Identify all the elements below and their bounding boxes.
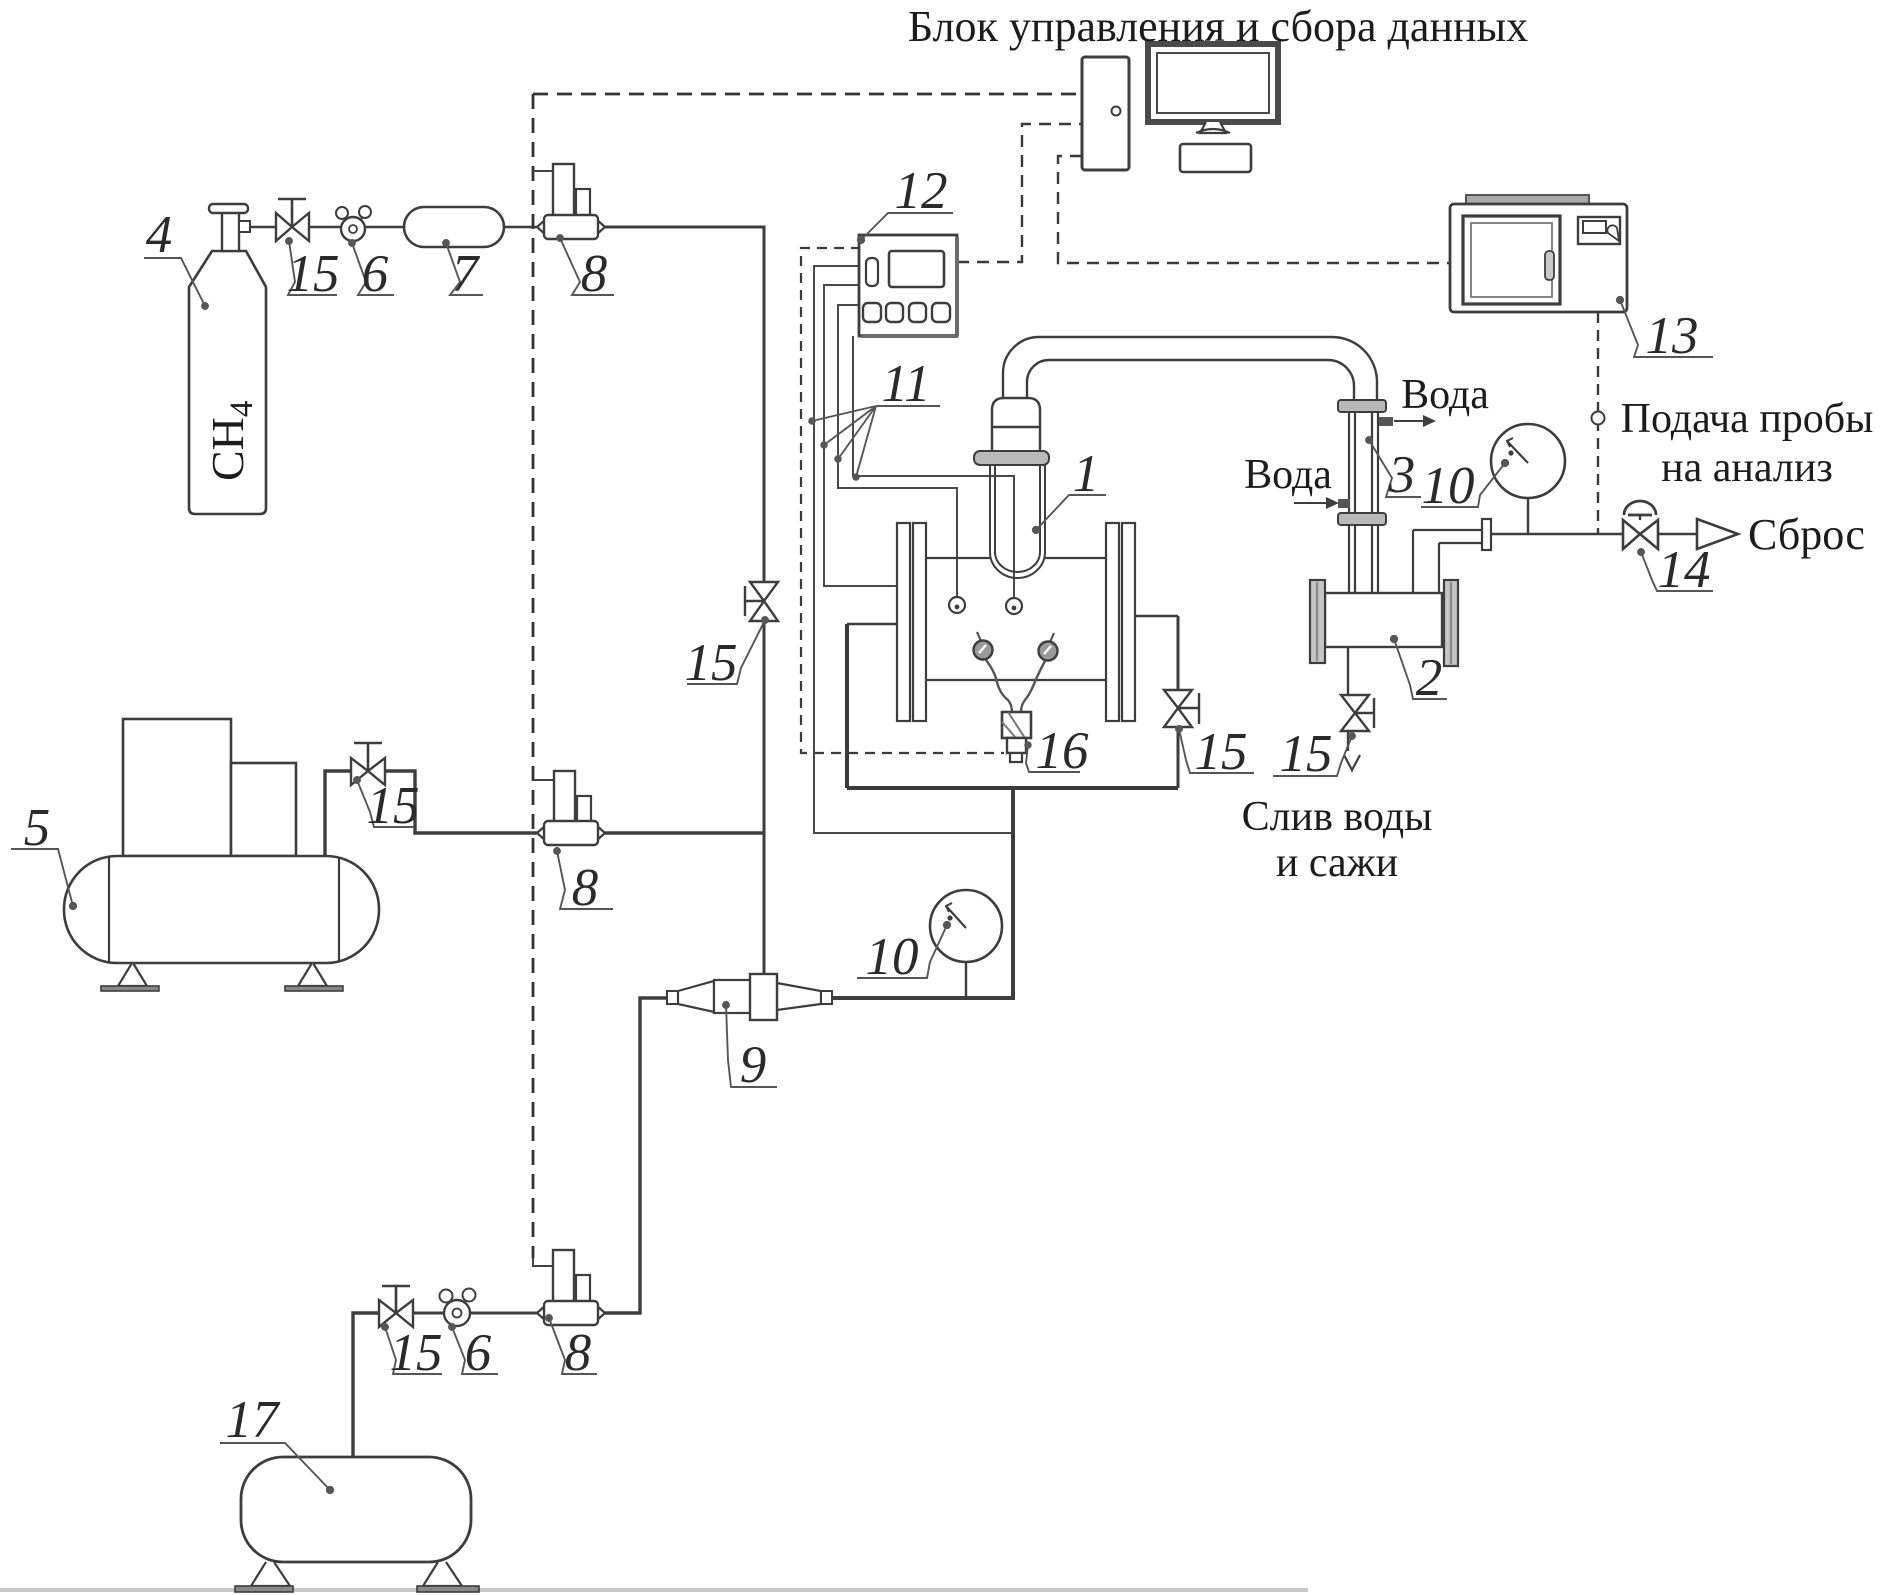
- svg-text:8: 8: [565, 1324, 592, 1382]
- reactor flange column left pair: [897, 523, 910, 721]
- svg-text:15: 15: [287, 245, 340, 303]
- gas nozzle port right: [1006, 598, 1022, 614]
- separator right flange: [1444, 580, 1458, 666]
- leader label 15 separator drain: [1273, 736, 1352, 776]
- svg-text:Сброс: Сброс: [1748, 510, 1865, 559]
- svg-text:13: 13: [1646, 307, 1699, 365]
- pipe drier 7 to flow controller 8: [504, 226, 538, 229]
- vertical line valve 15: [750, 582, 778, 601]
- svg-text:5: 5: [24, 799, 51, 857]
- receiver left leg: [251, 1562, 290, 1586]
- pressure gauge 10 bottom: [930, 890, 1002, 962]
- pipe valve 15 to regulator 6: [309, 226, 343, 229]
- page edge artifact bottom: [0, 1588, 1308, 1592]
- outlet bend pipe outer wall reactor to heat exchanger: [1003, 337, 1377, 401]
- svg-text:Блок управления и сбора данных: Блок управления и сбора данных: [908, 2, 1528, 51]
- CH4 cylinder handwheel: [209, 204, 248, 213]
- receiver tank 17: [241, 1457, 471, 1562]
- wire connector trunk bottom to flow controller 8 bottom: [533, 1258, 553, 1266]
- flow controller 8 bottom: [537, 1305, 546, 1321]
- svg-text:9: 9: [740, 1036, 767, 1094]
- heat exchanger top flange: [1338, 400, 1386, 412]
- svg-text:и сажи: и сажи: [1276, 840, 1398, 886]
- monitor stand: [1200, 122, 1226, 133]
- leader label 15 vertical valve: [687, 620, 765, 684]
- jacket drain valve 15: [1164, 690, 1192, 708]
- svg-text:6: 6: [362, 245, 389, 303]
- dashed line controller 12 to igniter 16: [801, 248, 1004, 753]
- compressor right leg: [298, 963, 327, 986]
- controller 12 display: [889, 251, 944, 287]
- pipe regulator 6 to drier vessel 7: [364, 226, 404, 229]
- svg-text:16: 16: [1036, 722, 1090, 780]
- thermocouple wire 11a from controller 12 to feed pipe: [814, 266, 1012, 833]
- pipe compressor 5 up to valve 15: [325, 771, 351, 856]
- leader label 16: [1026, 745, 1080, 772]
- dashed control trunk line from control unit down left side: [532, 94, 535, 1258]
- leader label 9: [726, 1005, 777, 1087]
- svg-text:3: 3: [1388, 446, 1416, 504]
- svg-text:Вода: Вода: [1244, 452, 1332, 498]
- svg-text:15: 15: [367, 777, 420, 835]
- reactor drain line right with gap for valve 15: [1177, 616, 1180, 788]
- heat exchanger 3 tube walls upper section: [1349, 412, 1378, 513]
- ignition wire right: [1021, 661, 1045, 712]
- separator left flange: [1310, 580, 1325, 663]
- outlet pipe union fitting: [1482, 519, 1491, 550]
- pipe flow controller 8 output to main vertical CH4 line: [604, 227, 764, 582]
- leader label 10 right: [1421, 463, 1505, 507]
- compressor 5 receiver tank: [64, 856, 379, 963]
- leader label 12: [861, 213, 953, 240]
- svg-text:Вода: Вода: [1401, 372, 1489, 418]
- discharge flare arrow: [1697, 519, 1738, 549]
- svg-text:10: 10: [1422, 457, 1475, 515]
- CH4 cylinder 4 body: [189, 251, 266, 514]
- svg-text:1: 1: [1073, 445, 1100, 503]
- pipe valve 15 to middle flow controller 8: [385, 771, 537, 833]
- leader label 15 cylinder valve: [288, 241, 337, 295]
- svg-text:4: 4: [146, 206, 173, 264]
- flow controller 8 top: [537, 219, 546, 235]
- receiver right leg: [423, 1562, 462, 1586]
- outlet bend pipe inner wall: [1027, 360, 1354, 401]
- burner bell dome: [992, 398, 1040, 451]
- compressor left leg: [118, 963, 147, 986]
- sampling line orifice symbol: [1592, 412, 1605, 425]
- compressor 5 motor box large: [123, 719, 231, 856]
- wire connector trunk to flow controller 8 middle: [533, 779, 554, 781]
- pipe middle flow controller 8 to main vertical line: [605, 831, 764, 834]
- svg-text:15: 15: [390, 1324, 443, 1382]
- reactor jacket left and bottom wall: [847, 624, 1178, 788]
- ejector 9 center block: [750, 974, 777, 1020]
- svg-text:10: 10: [866, 928, 919, 986]
- water inlet stub: [1338, 499, 1350, 508]
- reactor jacket top right connector: [1135, 615, 1178, 617]
- svg-text:на анализ: на анализ: [1661, 445, 1833, 491]
- bottom regulator 6: [440, 1290, 453, 1303]
- reactor vessel top line: [926, 557, 1106, 559]
- svg-text:2: 2: [1416, 649, 1443, 707]
- pressure gauge 10 right: [1491, 424, 1565, 498]
- gas nozzle port left: [949, 597, 965, 613]
- pressure regulator 6 top: [336, 207, 348, 219]
- leader label 10 bottom: [857, 925, 947, 978]
- leader label 2: [1394, 639, 1447, 699]
- dashed line system unit to gas analyzer 13: [1058, 156, 1449, 263]
- leader label 5: [11, 849, 73, 906]
- ejector 9 body: [714, 980, 777, 1013]
- ejector 9 outlet square: [821, 991, 832, 1004]
- leader label 6 regulator: [352, 243, 394, 295]
- leader label 1: [1036, 495, 1106, 530]
- dashed line controller 12 to system unit: [957, 124, 1082, 262]
- leader label 8 bottom: [549, 1318, 597, 1374]
- leader label 11 fan: [812, 406, 940, 477]
- drain arrow to water and soot discharge: [1344, 755, 1360, 770]
- svg-text:12: 12: [895, 162, 948, 220]
- thermocouple wire 11c from controller 12 into reactor nozzle: [838, 305, 957, 597]
- gas analyzer 13 lid: [1466, 195, 1589, 205]
- separator drain valve 15: [1341, 695, 1369, 713]
- leader label 13: [1620, 300, 1713, 357]
- flow controller 8 middle: [537, 825, 546, 841]
- gas analyzer 13 control panel: [1578, 217, 1620, 244]
- separator drain pipe: [1347, 647, 1349, 751]
- svg-text:Слив воды: Слив воды: [1242, 794, 1433, 840]
- leader label 3: [1369, 440, 1421, 497]
- pipe main vertical line below valve 15 down to ejector: [763, 621, 766, 974]
- svg-text:7: 7: [452, 245, 481, 303]
- burner tube walls: [990, 465, 1045, 552]
- electrode right: [1050, 633, 1054, 642]
- water outlet stub: [1379, 417, 1393, 426]
- svg-text:17: 17: [226, 1391, 282, 1449]
- svg-text:8: 8: [581, 245, 608, 303]
- compressor valve 15: [351, 758, 368, 785]
- separator 2 outlet pipe up and right: [1413, 530, 1482, 593]
- gas analyzer 13 door handle: [1545, 251, 1554, 280]
- gas analyzer 13 door: [1463, 216, 1560, 304]
- svg-text:14: 14: [1658, 541, 1711, 599]
- leader label 15 compressor valve: [357, 780, 414, 827]
- electrode left: [977, 632, 981, 641]
- svg-text:Подача пробы: Подача пробы: [1621, 396, 1874, 442]
- thermocouple wire 11d from controller 12 into burner tube: [853, 336, 1014, 598]
- pressure gauge 10 bottom stem: [965, 961, 967, 998]
- svg-text:11: 11: [881, 355, 930, 413]
- compressor 5 motor box small: [231, 763, 296, 856]
- svg-text:8: 8: [572, 859, 599, 917]
- svg-text:15: 15: [685, 634, 738, 692]
- CH4 cylinder outlet stub: [239, 221, 250, 232]
- heat exchanger bottom flange: [1338, 513, 1386, 525]
- heat exchanger 3 tube walls lower section: [1349, 525, 1378, 593]
- cylinder valve 15 top: [276, 213, 292, 241]
- pipe bottom flow controller 8 to ejector suction: [605, 998, 667, 1313]
- drier vessel 7: [404, 207, 504, 247]
- leader label 8 middle: [557, 851, 613, 909]
- dashed sampling line from analyzer 13 down to flare pipe: [1597, 312, 1599, 534]
- leader label 17: [220, 1443, 330, 1490]
- reactor vessel bottom line: [926, 679, 1106, 681]
- reactor jacket top left connector: [847, 623, 897, 625]
- leader label 15 bottom: [385, 1327, 442, 1374]
- water inlet arrow: [1294, 502, 1326, 504]
- thermocouple wire 11b from controller 12 to reactor flange: [824, 285, 897, 586]
- svg-text:15: 15: [1195, 723, 1248, 781]
- leader label 4: [144, 258, 205, 306]
- separator 2 body: [1325, 593, 1442, 647]
- dashed line trunk top to computer system unit: [533, 93, 1082, 96]
- computer keyboard: [1180, 144, 1251, 172]
- pipe receiver 17 up to valve 15: [353, 1313, 379, 1457]
- pipe valve 15 to regulator 6 bottom: [413, 1312, 445, 1315]
- ejector 9 suction inlet square: [667, 991, 678, 1004]
- gas analyzer 13 box: [1450, 204, 1627, 312]
- controller 12 slot: [866, 258, 878, 286]
- computer system unit: [1082, 57, 1129, 170]
- leader label 15 jacket drain: [1179, 729, 1254, 773]
- ejector 9 right nozzle cone: [777, 983, 821, 1010]
- svg-text:15: 15: [1280, 725, 1333, 783]
- bottom valve 15: [379, 1300, 396, 1327]
- flare pipe to valve 14 and discharge: [1491, 533, 1697, 536]
- pipe regulator 6 to bottom flow controller 8: [469, 1312, 537, 1315]
- burner flange gray: [974, 451, 1049, 465]
- pipe CH4 cylinder to valve 15: [249, 226, 276, 229]
- pipe ejector 9 outlet to reactor jacket bottom: [832, 788, 1013, 998]
- leader label 6 bottom: [452, 1327, 498, 1374]
- CH4 cylinder neck: [222, 210, 239, 251]
- pressure gauge 10 right stem: [1527, 497, 1529, 534]
- ejector 9 left diffuser cone: [678, 981, 714, 1012]
- leader label 14: [1641, 552, 1713, 591]
- igniter 16 spark plug: [1002, 712, 1031, 738]
- computer monitor: [1148, 44, 1278, 122]
- leader label 8 top: [560, 238, 614, 295]
- svg-text:6: 6: [465, 1324, 492, 1382]
- controller 12 box: [859, 235, 957, 336]
- burner tube U bottom: [990, 552, 1045, 578]
- ignition wire left: [986, 660, 1012, 712]
- reactor flange column right pair: [1106, 523, 1119, 721]
- leader label 7 drier: [446, 243, 483, 295]
- valve 14: [1623, 520, 1640, 549]
- wire connector trunk to flow controller 8 top: [533, 170, 553, 172]
- water outlet arrow: [1394, 420, 1423, 422]
- controller 12 buttons: [863, 303, 881, 322]
